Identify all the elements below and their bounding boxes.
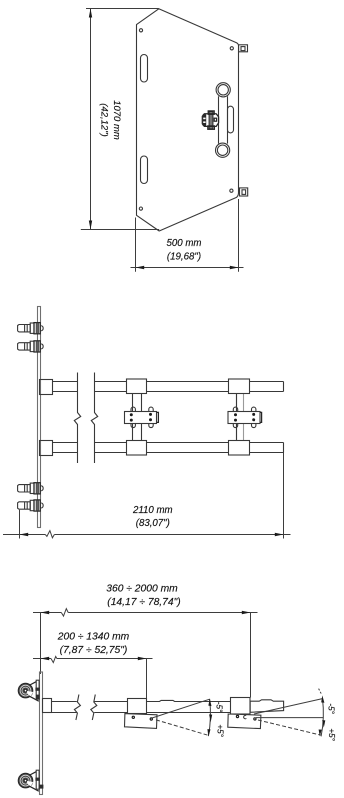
set2 arc extension: [319, 689, 322, 695]
svg-text:360 ÷ 2000 mm: 360 ÷ 2000 mm: [106, 583, 178, 594]
bolt 2: [18, 341, 44, 352]
svg-text:(83,07"): (83,07"): [136, 518, 170, 529]
clamp1 tube: [133, 394, 142, 441]
svg-text:(14,17 ÷ 78,74"): (14,17 ÷ 78,74"): [107, 597, 180, 608]
tab lower right: [240, 188, 248, 196]
dim 2110 extension right: [283, 453, 285, 539]
clamp1 bottom block: [127, 441, 147, 456]
clamp knob center bars: [209, 111, 213, 129]
set1 solid ray: [152, 699, 210, 718]
bolt 4: [18, 500, 44, 511]
bottom rail mount block: [40, 441, 53, 456]
bolt 3: [18, 483, 44, 494]
set2 arrow low: [319, 730, 322, 737]
dim 1070 line: [90, 9, 92, 230]
svg-text:(42,12"): (42,12"): [99, 103, 110, 136]
rail end piece: [250, 700, 283, 713]
top rail mount block: [40, 380, 53, 395]
bracket2 bolts: [236, 715, 239, 718]
svg-text:200 ÷ 1340 mm: 200 ÷ 1340 mm: [57, 632, 130, 643]
dim 500 extension left: [135, 218, 137, 272]
svg-text:1070 mm: 1070 mm: [111, 100, 122, 140]
tab upper right: [239, 45, 248, 52]
set2 arrow up: [321, 695, 324, 702]
rail break right: [91, 695, 97, 721]
rail break left: [74, 695, 80, 721]
dim 2110 line: [3, 534, 291, 536]
dim 200-1340 arrow right: [138, 657, 147, 660]
svg-text:(19,68"): (19,68"): [167, 252, 201, 263]
clamp knob body: [202, 114, 218, 127]
dim 360-2000 ext right: [250, 613, 252, 698]
set2 horizontal ray: [256, 717, 324, 719]
wall plate outline: [137, 9, 239, 231]
svg-text:-5°: -5°: [326, 703, 335, 714]
break line left: [74, 373, 80, 464]
hole bottom-right: [230, 189, 233, 192]
dim 500 extension right: [238, 199, 240, 272]
dim 360-2000 line: [33, 612, 258, 614]
VIEW2 group: [3, 307, 291, 539]
clamp2 bumps: [233, 407, 256, 428]
set1 arc: [208, 699, 210, 736]
bottom rail: [53, 443, 284, 453]
wall rail plate: [38, 307, 41, 528]
clamp knob top tab: [208, 111, 214, 114]
set2 solid ray: [254, 699, 322, 714]
shared left extension: [40, 613, 42, 675]
rail bottom view: [52, 700, 231, 712]
dim 1070 arrow bottom: [89, 221, 92, 230]
clamp2 top block: [229, 379, 250, 394]
slot upper: [141, 55, 148, 83]
clamp2 block bottom view: [231, 698, 251, 715]
slot lower: [141, 156, 148, 184]
wall plate bottom view: [40, 672, 43, 795]
clamp1 bolts: [130, 413, 133, 416]
svg-text:+5°: +5°: [327, 728, 336, 741]
caster top: [18, 680, 40, 701]
clamp2 plate: [228, 412, 260, 424]
handle top ring: [216, 83, 230, 97]
dim 2110 arrow left: [20, 533, 29, 536]
dim 1070 extension bottom: [81, 229, 159, 231]
svg-text:500 mm: 500 mm: [167, 238, 202, 249]
dim 2110 arrow right: [275, 533, 284, 536]
VIEW1 group: [81, 9, 248, 272]
handle bottom ring: [216, 143, 230, 157]
dim 200-1340 line: [33, 658, 153, 660]
set1 arrow mid: [209, 714, 212, 722]
set1 dashed ray: [156, 720, 209, 736]
set1 arrow up: [208, 698, 211, 706]
clamp2 bolts: [234, 413, 237, 416]
clamp1 bumps: [131, 407, 153, 428]
svg-text:-5°: -5°: [215, 702, 224, 713]
dim 200-1340 ext right: [146, 659, 148, 699]
VIEW3 group: [18, 583, 336, 794]
svg-text:+5°: +5°: [216, 724, 225, 737]
clamp1 clip: [157, 412, 159, 422]
dim 2110 break: [45, 531, 54, 538]
bracket2 clip mark: [244, 715, 247, 718]
clamp1 plate: [125, 412, 157, 424]
clamp knob right notch: [214, 118, 216, 121]
set2 dashed ray: [258, 720, 321, 735]
clamp2 tube: [237, 394, 244, 441]
set2 arrow mid: [322, 720, 325, 728]
dim 200-1340 break: [51, 656, 57, 662]
dim 500 arrow right: [230, 266, 239, 269]
dim 360-2000 break: [61, 609, 68, 617]
clamp knob bottom tab: [208, 126, 215, 129]
handle bar: [218, 96, 220, 143]
clamp2 clip: [260, 412, 262, 422]
clamp knob left bar: [203, 114, 206, 126]
svg-text:2110 mm: 2110 mm: [132, 505, 173, 516]
dim 200-1340 arrow left: [41, 657, 50, 660]
hole top-right: [230, 47, 233, 50]
set1 arrow low: [207, 729, 210, 737]
bracket1 bolts: [132, 716, 135, 719]
handle slot: [228, 106, 234, 133]
dim 500 arrow left: [136, 266, 145, 269]
set2 arc: [321, 698, 323, 736]
clamp2 bottom block: [229, 441, 250, 456]
hole bottom-left: [139, 207, 142, 210]
dim 360-2000 arrow left: [41, 611, 50, 614]
bracket2: [228, 714, 261, 729]
break line right: [91, 373, 97, 464]
hole top-left: [139, 29, 142, 32]
clamp1 top block: [127, 379, 147, 394]
svg-text:(7,87 ÷ 52,75"): (7,87 ÷ 52,75"): [60, 645, 128, 656]
dim 360-2000 arrow right: [242, 611, 251, 614]
rail mount block bottom view: [43, 699, 52, 713]
dim 500 line: [131, 267, 244, 269]
top rail: [53, 382, 284, 392]
dim 1070 arrow top: [89, 9, 92, 18]
clamp1 block bottom view: [128, 699, 147, 714]
caster bottom: [18, 770, 43, 791]
bracket1: [125, 714, 158, 729]
dim 2110 extension left: [19, 510, 21, 539]
bolt 1: [18, 323, 44, 334]
dim 1070 extension top: [86, 8, 159, 10]
